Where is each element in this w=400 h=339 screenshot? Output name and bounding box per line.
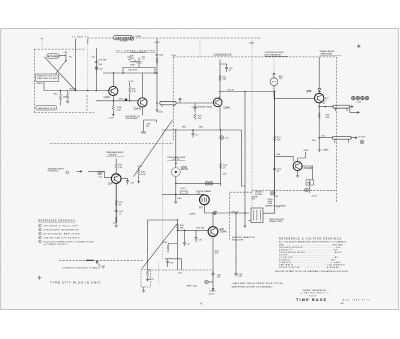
dashed box A sweep control bbox=[35, 49, 95, 112]
circled x pair bbox=[205, 181, 213, 185]
dashed box timing resistor bbox=[141, 269, 151, 287]
vertical line x157 bbox=[156, 39, 158, 104]
label -0.5V bottom bbox=[109, 114, 115, 120]
wire delay to comparator bbox=[176, 98, 215, 103]
junction dots y73 bbox=[113, 72, 115, 74]
resistor R92 stub bbox=[163, 242, 177, 253]
comparator emitter down x220 bbox=[219, 107, 221, 131]
label C48 bbox=[325, 98, 330, 100]
junction x157 y73 bbox=[156, 72, 158, 74]
resistor R28 bbox=[194, 114, 202, 120]
delay line L47 bbox=[319, 105, 350, 111]
star mark bbox=[357, 44, 361, 48]
resistor R20 10K bbox=[155, 55, 164, 64]
dotted feed x200 bbox=[199, 40, 201, 57]
arrow TO CRT bbox=[351, 137, 366, 139]
label C49 82 bbox=[0, 0, 1, 1]
chassis ground symbol note with arrow bbox=[63, 261, 106, 270]
ground below R79 bbox=[115, 224, 118, 227]
wire Q34A collector bbox=[219, 96, 220, 98]
connector circle on rail bbox=[130, 37, 133, 40]
voltage readings text block bbox=[275, 238, 349, 274]
dotted vertical x162 bbox=[161, 130, 163, 260]
T70 down wire bbox=[204, 205, 249, 213]
dashed linkage line y270 bbox=[148, 269, 212, 271]
transistor Q44 bbox=[307, 90, 324, 103]
diode on wire bbox=[214, 211, 217, 214]
dashed box main right edge bbox=[336, 57, 338, 202]
wire to emitter line bbox=[208, 281, 213, 283]
circled plus row bbox=[352, 96, 369, 103]
wire y98.3 to Q44 bbox=[274, 97, 315, 99]
label 27 SER 67 bbox=[72, 36, 89, 44]
transistor Q34A bbox=[213, 98, 230, 110]
wire y120 with pad bbox=[141, 120, 157, 133]
right branch x244 bbox=[242, 130, 246, 186]
trigger input label bbox=[48, 168, 65, 172]
resistor R74 bbox=[115, 159, 123, 174]
capacitor C76 bbox=[121, 179, 135, 185]
capacitor C96 bbox=[212, 271, 222, 279]
dashed box main left edge bbox=[172, 57, 174, 140]
circled x C70 bbox=[220, 136, 230, 140]
short dashed vertical right of box bbox=[158, 262, 160, 285]
dashed holdoff corner bbox=[230, 192, 253, 241]
wire bus to Q14A bbox=[109, 90, 111, 92]
TIME/DIV switch label box bbox=[36, 74, 59, 85]
component stack C14 R14 bbox=[91, 55, 107, 70]
tunnel diode TD30 bbox=[155, 103, 163, 114]
label mounted on swp board bbox=[126, 116, 141, 120]
wire Q14B collector up bbox=[141, 73, 143, 98]
wire left drop to bus bbox=[43, 82, 45, 91]
transistor Q64 bbox=[171, 163, 188, 177]
arrow lower branch bbox=[350, 108, 359, 113]
labels R49 C50 bbox=[312, 135, 326, 142]
capacitor C40 loop bbox=[123, 57, 155, 74]
Q44 collector up bbox=[318, 57, 320, 89]
wire y183.8 bbox=[176, 176, 221, 183]
label TIME BASE GATE bbox=[167, 156, 186, 161]
label mont holdoff capacitors bbox=[269, 219, 285, 223]
vertical wire x84.8 dotted bbox=[87, 43, 89, 91]
pulse transformer label bbox=[196, 190, 211, 195]
transistor Q54 bbox=[293, 162, 313, 171]
Q64 collector up bbox=[175, 130, 177, 163]
capacitor C66 bbox=[192, 130, 200, 138]
wire y258.8 with cap bbox=[165, 259, 183, 275]
transistor Q14A bbox=[104, 73, 118, 99]
capacitor C54 bbox=[273, 169, 282, 174]
wire y230.4 to Q90 bbox=[178, 229, 208, 231]
lamp feed from rail bbox=[273, 57, 275, 73]
resistor R52 75K bbox=[274, 136, 282, 142]
wire x236 branch bbox=[235, 212, 243, 278]
junction dot y213 bbox=[212, 212, 214, 214]
label 2N pulse left bbox=[255, 192, 279, 198]
resistor R16 1.5K bbox=[128, 81, 137, 102]
column +12V R76 bbox=[137, 166, 146, 183]
resistor R12 with ground bbox=[66, 91, 69, 104]
capacitor C78 bbox=[115, 211, 124, 216]
labels right of holdoff box bbox=[268, 199, 281, 209]
ground below box bbox=[142, 287, 145, 292]
wire y73 bbox=[103, 72, 157, 74]
label TP top left bbox=[41, 38, 44, 47]
delay line L30 bbox=[156, 101, 176, 107]
plus cross mark bbox=[38, 276, 42, 280]
resistor R79 bbox=[113, 217, 118, 225]
comparator collector line x220 bbox=[219, 60, 221, 99]
label 2N xx delayed trig bbox=[192, 103, 213, 113]
wire +150V to Q54 bbox=[298, 152, 306, 162]
circled x C74 bbox=[98, 171, 103, 179]
diagonal wire to gate row bbox=[134, 120, 173, 177]
wire y194.4 inductor bbox=[162, 188, 204, 195]
reference drawings list bbox=[39, 219, 95, 246]
resistor R48 bbox=[318, 113, 330, 119]
dotted feed x249 top bbox=[251, 40, 253, 208]
label CONTINUOUS RUN MULTIVIBRATOR bbox=[265, 52, 289, 56]
holdoff caps box bbox=[251, 208, 263, 223]
resistor R26 on wire bbox=[219, 89, 235, 92]
wire holdoff to x273.8 bbox=[263, 193, 275, 213]
wire y156.3 to Q54 bbox=[275, 156, 294, 161]
wire to Q74 bbox=[102, 171, 112, 178]
+12.5V free-running label oval bbox=[114, 36, 133, 43]
circled x swp cal bbox=[205, 280, 209, 284]
capacitor C90 bbox=[177, 230, 191, 246]
resistor R70 bbox=[220, 163, 228, 169]
Q74 emitter down bbox=[115, 183, 117, 222]
wire diagonal 2 bbox=[56, 61, 67, 75]
label -0.5V arrow bbox=[96, 68, 103, 73]
node +17V stub bbox=[63, 52, 69, 61]
wire Q14B emitter bus bbox=[137, 100, 139, 102]
Q54 emitter ground bbox=[296, 171, 299, 178]
resistor R24 bbox=[219, 75, 227, 81]
trigger connector circle bbox=[66, 171, 69, 174]
ground under holdoff bbox=[249, 220, 252, 222]
vertical x175.8 q90 block bbox=[177, 220, 179, 270]
dark segment on dashed line bbox=[86, 259, 94, 261]
main bus wire y90.5 bbox=[44, 90, 109, 92]
resistor R10 drop bbox=[54, 91, 68, 106]
Q90 emitter down bbox=[212, 236, 214, 286]
transistor Q74 bbox=[108, 174, 121, 186]
gate reset note lines bbox=[232, 282, 284, 288]
lamp B40 bbox=[270, 73, 283, 86]
component cluster left margin bbox=[130, 56, 137, 67]
dashed box main bottom bbox=[252, 190, 337, 192]
junction dots on bus bbox=[75, 90, 77, 92]
wire diagonal from ext horiz bbox=[44, 57, 75, 91]
label time-base rate driver bbox=[106, 151, 124, 156]
vertical wire x90.5 bbox=[95, 48, 97, 91]
vertical wire x77 bbox=[75, 43, 77, 91]
label +12V arrow bbox=[222, 173, 228, 175]
trigger wire with arrow bbox=[77, 171, 105, 173]
chassis ground sample dashed line bbox=[59, 259, 144, 261]
title block bottom right bbox=[296, 289, 370, 305]
top rail dashed line bbox=[88, 37, 260, 39]
label SWEEP RELAY AMPLIFIER bbox=[320, 50, 342, 55]
Q44 emitter junction bbox=[318, 100, 327, 107]
diode D44 above Q44 bbox=[318, 89, 321, 94]
transistor Q90 bbox=[208, 227, 227, 237]
resistor R90 bbox=[176, 224, 184, 230]
wire Q14B down bbox=[141, 107, 143, 116]
VARIABLE control box bbox=[36, 105, 57, 110]
capacitor C22 stub bbox=[220, 64, 233, 72]
circled x below arrow bbox=[360, 140, 364, 144]
wire y91.5 comparator out bbox=[220, 91, 275, 93]
diagonal wire bbox=[142, 224, 177, 269]
junction dots y91.8 bbox=[244, 91, 246, 93]
label +GATE / -12.2V bottom bbox=[208, 286, 216, 296]
resistor R78 bbox=[115, 200, 123, 206]
capacitor C91 bbox=[195, 230, 203, 242]
label holdoff capacitor selector bbox=[232, 236, 255, 241]
wire ext horiz to node bbox=[59, 55, 66, 57]
wire y130 gate row bbox=[163, 129, 242, 131]
EXT HORIZ input oval bbox=[47, 54, 60, 58]
transistor Q14B bbox=[134, 98, 147, 111]
wire lamp down bbox=[273, 86, 275, 99]
vertical x145.5 bbox=[147, 220, 149, 270]
junction cx at 272 y193.3 bbox=[270, 191, 275, 195]
dashed jog to left y142 bbox=[50, 143, 173, 145]
labels above holdoff box bbox=[251, 195, 258, 200]
dashed box main top bbox=[173, 56, 336, 58]
arrow to sweep out bbox=[350, 106, 353, 108]
right branch to R60 box bbox=[302, 166, 318, 197]
vertical x220.6 gate bbox=[220, 130, 222, 186]
pulse transformer T70 bbox=[199, 195, 210, 209]
long vertical x249 bbox=[244, 92, 246, 225]
resistor R18 below bus bbox=[112, 100, 122, 115]
labels on y130 bbox=[182, 126, 204, 128]
label C41 bbox=[142, 56, 147, 60]
test point TP15 bbox=[119, 99, 128, 101]
vertical x319 down to delay2 bbox=[318, 107, 320, 152]
Q90 collector up bbox=[212, 213, 214, 227]
main vertical x274.6 bbox=[274, 92, 276, 193]
resistor R175 in dashed box bbox=[146, 270, 154, 281]
junction dot q64 bbox=[175, 129, 177, 131]
delay line L49 bbox=[318, 136, 351, 143]
emitter bus y100.8 bbox=[96, 96, 138, 101]
wire y220 bbox=[148, 219, 178, 221]
Q64 emitter down with ground bbox=[174, 183, 182, 203]
